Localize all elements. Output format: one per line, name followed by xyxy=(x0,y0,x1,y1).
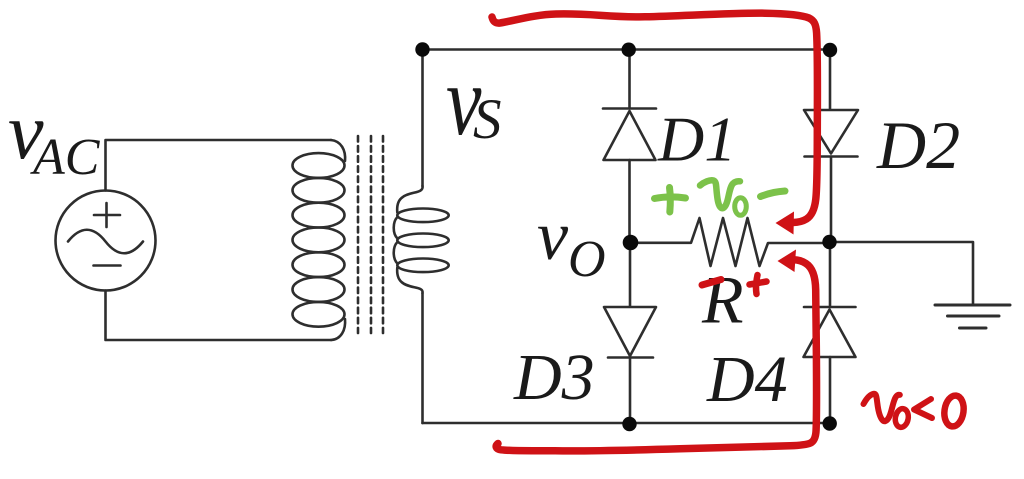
red annotation bottom current path xyxy=(496,260,816,451)
svg-text:O: O xyxy=(568,231,606,288)
red plus near R xyxy=(750,275,767,294)
diode D3 xyxy=(604,307,656,358)
node top-left xyxy=(415,42,429,56)
wire D3 bottom xyxy=(629,358,632,424)
green v0 label xyxy=(700,180,740,208)
diode D4 xyxy=(804,307,856,357)
wire D1 top xyxy=(628,50,631,109)
wire D1 to vO node xyxy=(628,160,631,243)
wire to ground xyxy=(830,242,973,305)
label vS xyxy=(446,47,481,156)
resistor R zigzag xyxy=(630,218,830,266)
ac source VAC circle xyxy=(56,191,156,291)
wire secondary top xyxy=(421,50,424,187)
transformer core dashed lines xyxy=(358,136,383,333)
wire D2 to right mid node xyxy=(830,157,833,243)
diode D1 xyxy=(603,109,656,161)
wire vO node to D3 xyxy=(629,243,632,308)
wire primary top xyxy=(106,140,332,191)
svg-text:v: v xyxy=(537,198,569,275)
svg-text:S: S xyxy=(473,88,502,151)
node right-mid xyxy=(822,235,836,249)
svg-text:AC: AC xyxy=(30,129,101,186)
wire top rail xyxy=(423,48,831,51)
red minus near R xyxy=(702,280,721,286)
red arrowhead top xyxy=(776,212,795,235)
svg-text:R: R xyxy=(701,262,744,338)
ground symbol xyxy=(935,305,1010,328)
svg-text:D4: D4 xyxy=(706,343,788,416)
svg-text:D3: D3 xyxy=(513,341,595,414)
wire secondary bottom xyxy=(421,293,424,423)
transformer primary coil xyxy=(293,140,346,340)
node bottom-right xyxy=(823,416,837,430)
green plus xyxy=(655,188,686,213)
node top-middle xyxy=(622,43,636,57)
node vO xyxy=(623,235,639,251)
green minus xyxy=(761,191,786,197)
wire bottom rail xyxy=(423,422,831,425)
diode D2 xyxy=(804,110,858,157)
ac source minus sign xyxy=(94,264,121,267)
wire right mid node to D4 xyxy=(829,242,832,307)
wire D2 top xyxy=(829,50,832,110)
wire primary bottom xyxy=(106,291,332,341)
red annotation top current path xyxy=(492,13,817,222)
svg-text:D2: D2 xyxy=(876,107,960,183)
node bottom-middle xyxy=(622,417,636,431)
svg-text:D1: D1 xyxy=(657,104,736,175)
ac source sine wave xyxy=(68,230,143,254)
ac source plus sign xyxy=(94,203,120,227)
wire D4 bottom xyxy=(829,357,832,423)
transformer secondary coil xyxy=(394,186,449,293)
red text v0 less than 0 xyxy=(864,394,966,429)
node top-right xyxy=(823,43,837,57)
red arrowhead bottom xyxy=(778,250,797,273)
